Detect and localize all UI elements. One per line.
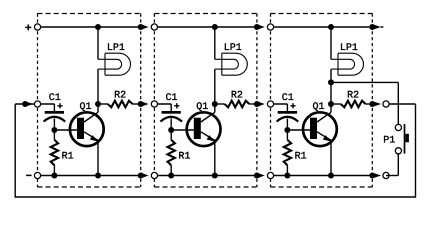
pushbutton P1: [395, 124, 401, 130]
wire: input terminal to capacitor C1 (stage 2): [154, 103, 171, 105]
terminal: input (stage 1): [34, 101, 40, 107]
terminal: negative (stage 3): [267, 172, 273, 178]
transistor Q1 (stage 1): [70, 112, 104, 146]
wire: negative rail (stage 2): [154, 175, 257, 177]
svg-text:C1: C1: [49, 93, 61, 104]
wire: negative rail to P1: [386, 175, 398, 177]
wire: base node to Q1 (stage 2): [171, 129, 194, 131]
svg-text:C1: C1: [282, 93, 294, 104]
resistor R1 (stage 1): [53, 130, 55, 140]
junction: emitter on negative rail (stage 1): [95, 173, 101, 179]
battery + label: [25, 24, 31, 30]
svg-text:R1: R1: [62, 152, 74, 163]
junction: negative rail at right border (stage 3): [369, 173, 375, 179]
junction: trigger tap on stage 3 lamp wire: [328, 79, 334, 85]
junction on feedback input wire: [22, 101, 28, 107]
junction: emitter on negative rail (stage 3): [328, 173, 334, 179]
junction: R1 on negative rail (stage 3): [284, 173, 290, 179]
node: C1 / R1 / base of Q1 (stage 2): [168, 127, 174, 133]
stage 2 module outline (dashed box): [154, 14, 257, 188]
junction: emitter on negative rail (stage 2): [212, 173, 218, 179]
junction: negative rail at right border (stage 1): [138, 173, 144, 179]
stage 1 module outline (dashed box): [38, 14, 141, 188]
wire: lamp LP1 to collector node (stage 1): [97, 69, 99, 104]
battery - label: [26, 174, 32, 176]
arrow: negative rail after stage 3: [374, 173, 381, 178]
arrow: signal out to stage 3: [259, 102, 265, 107]
junction: signal out at right border (stage 2): [254, 101, 260, 107]
junction: negative rail at right border (stage 2): [254, 173, 260, 179]
arrow: +V rail to stage 3: [259, 25, 265, 30]
resistor R2 (stage 3): [331, 103, 341, 105]
terminal: input (stage 3): [267, 101, 273, 107]
junction: R1 on negative rail (stage 1): [51, 173, 57, 179]
capacitor C1 (stage 2): [170, 104, 172, 111]
node: collector of Q1 / R2 / LP1 (stage 1): [95, 101, 101, 107]
svg-text:R1: R1: [295, 152, 307, 163]
wire: Q1 emitter down to negative rail (stage 2): [214, 140, 216, 176]
wire: +V to lamp LP1 (stage 1): [97, 27, 99, 59]
junction: signal out at right border (stage 3): [369, 101, 375, 107]
wire: base node to Q1 (stage 1): [54, 129, 77, 131]
wire: base node to Q1 (stage 3): [287, 129, 310, 131]
stage 3 module outline (dashed box): [271, 14, 373, 188]
svg-text:Q1: Q1: [196, 102, 208, 113]
polarity + of C1 (stage 1): [57, 103, 62, 108]
wire: +V to lamp LP1 (stage 2): [214, 27, 216, 59]
wire: Q1 collector up to node (stage 1): [97, 104, 99, 112]
wire: Q1 collector up to node (stage 3): [330, 104, 332, 112]
lamp LP1 (stage 1): [98, 53, 131, 75]
junction: lamp tap on +V rail (stage 1): [95, 24, 101, 30]
resistor R1 (stage 3): [286, 130, 288, 140]
svg-text:C1: C1: [165, 93, 177, 104]
arrow: +V rail continuation after stage 3: [374, 25, 381, 30]
junction: R1 on negative rail (stage 2): [168, 173, 174, 179]
terminal: input (stage 2): [151, 101, 157, 107]
lamp LP1 (stage 3): [331, 53, 364, 75]
svg-text:LP1: LP1: [340, 43, 358, 54]
wire: Q1 emitter down to negative rail (stage 3): [330, 140, 332, 176]
junction: +V rail at right border (stage 3): [369, 24, 375, 30]
svg-text:LP1: LP1: [107, 43, 125, 54]
transistor Q1 (stage 2): [187, 112, 221, 146]
svg-text:R2: R2: [114, 90, 126, 101]
arrow: negative rail to stage 3: [259, 173, 265, 178]
svg-text:P1: P1: [383, 135, 395, 146]
node: C1 / R1 / base of Q1 (stage 3): [284, 127, 290, 133]
wire: trigger tap to P1: [331, 81, 398, 83]
arrow: negative rail to stage 2: [142, 173, 148, 178]
wire: +V to lamp LP1 (stage 3): [330, 27, 332, 59]
capacitor C1 (stage 3): [286, 104, 288, 111]
node: C1 / R1 / base of Q1 (stage 1): [51, 127, 57, 133]
wire: negative rail (stage 3): [271, 175, 373, 177]
wire: input terminal to capacitor C1 (stage 3): [271, 103, 288, 105]
terminal: +V (stage 2): [151, 24, 157, 30]
wire: Q1 emitter down to negative rail (stage 1): [97, 140, 99, 176]
arrow: +V rail to stage 2: [142, 25, 148, 30]
wire: +V rail (stage 1): [38, 26, 141, 28]
lamp LP1 (stage 2): [215, 53, 248, 75]
resistor R1 (stage 2): [170, 130, 172, 140]
terminal: stage 3 output: [383, 101, 389, 107]
wire: feedback loop (left, bottom, right segments): [15, 104, 415, 197]
terminal: negative (stage 1): [34, 172, 40, 178]
node: collector of Q1 / R2 / LP1 (stage 2): [212, 101, 218, 107]
wire: input terminal to capacitor C1 (stage 1): [38, 103, 55, 105]
terminal: negative rail out: [383, 172, 389, 178]
terminal: +V (stage 3): [267, 24, 273, 30]
svg-text:R2: R2: [347, 90, 359, 101]
polarity + of C1 (stage 2): [174, 103, 179, 108]
svg-text:Q1: Q1: [79, 102, 91, 113]
polarity + of C1 (stage 3): [290, 103, 295, 108]
svg-text:R2: R2: [231, 90, 243, 101]
junction: +V rail at right border (stage 2): [254, 24, 260, 30]
wire: negative rail (stage 1): [38, 175, 141, 177]
node: collector of Q1 / R2 / LP1 (stage 3): [328, 101, 334, 107]
resistor R2 (stage 1): [98, 103, 108, 105]
terminal: negative (stage 2): [151, 172, 157, 178]
wire: +V rail (stage 2): [154, 26, 257, 28]
junction: +V rail at right border (stage 1): [138, 24, 144, 30]
wire: lamp LP1 to collector node (stage 2): [214, 69, 216, 104]
junction: lamp tap on +V rail (stage 3): [328, 24, 334, 30]
wire: +V rail (stage 3): [271, 26, 373, 28]
wire: stage 3 output to feedback corner: [386, 103, 416, 105]
transistor Q1 (stage 3): [303, 112, 337, 146]
wire: Q1 collector up to node (stage 2): [214, 104, 216, 112]
wire: feedback into stage 1 input: [15, 103, 34, 105]
arrow: signal out to stage 2: [142, 102, 148, 107]
terminal: +V (stage 1): [34, 24, 40, 30]
arrow: stage 3 output: [374, 102, 381, 107]
svg-text:Q1: Q1: [312, 102, 324, 113]
junction: lamp tap on +V rail (stage 2): [212, 24, 218, 30]
svg-text:R1: R1: [178, 152, 190, 163]
svg-text:LP1: LP1: [224, 43, 242, 54]
capacitor C1 (stage 1): [53, 104, 55, 111]
arrow into stage 1 input terminal: [27, 102, 33, 107]
resistor R2 (stage 2): [215, 103, 225, 105]
wire: lamp LP1 to collector node (stage 3): [330, 69, 332, 104]
junction: signal out at right border (stage 1): [138, 101, 144, 107]
